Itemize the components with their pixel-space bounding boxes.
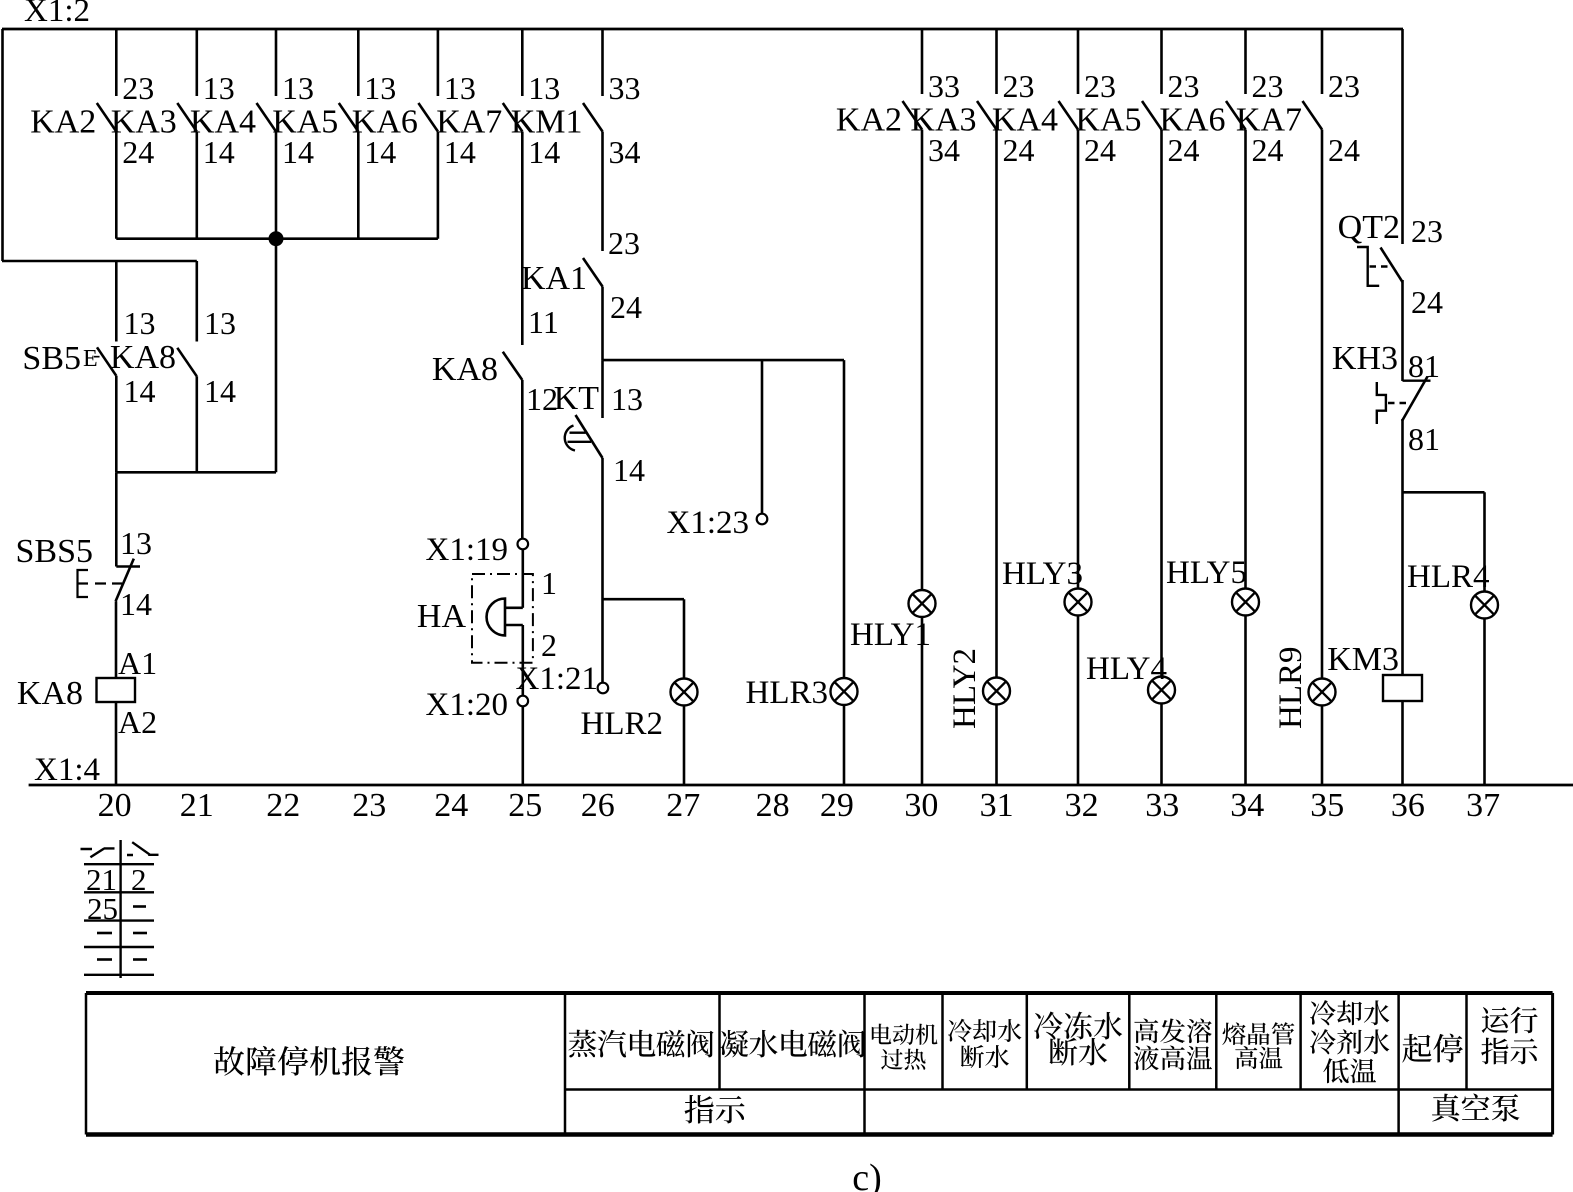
svg-text:X1:20: X1:20: [426, 687, 509, 723]
svg-text:23: 23: [1168, 68, 1200, 104]
svg-text:KA3: KA3: [910, 102, 976, 139]
svg-text:KM3: KM3: [1327, 641, 1399, 678]
svg-text:20: 20: [98, 787, 132, 824]
svg-text:13: 13: [120, 525, 152, 561]
svg-text:HLR2: HLR2: [581, 706, 664, 742]
svg-text:81: 81: [1408, 348, 1440, 384]
svg-text:X1:2: X1:2: [24, 0, 90, 29]
svg-text:24: 24: [1411, 284, 1443, 320]
svg-text:QT2: QT2: [1338, 209, 1400, 246]
svg-text:KA5: KA5: [1075, 102, 1141, 139]
svg-text:X1:21: X1:21: [516, 661, 599, 697]
svg-text:24: 24: [610, 289, 642, 325]
svg-text:34: 34: [1230, 787, 1264, 824]
svg-text:KA4: KA4: [992, 102, 1058, 139]
svg-text:13: 13: [444, 70, 476, 106]
svg-text:37: 37: [1466, 787, 1500, 824]
svg-text:11: 11: [528, 304, 559, 340]
svg-text:81: 81: [1408, 421, 1440, 457]
svg-text:KA7: KA7: [436, 104, 502, 141]
svg-text:13: 13: [282, 70, 314, 106]
svg-text:14: 14: [613, 452, 645, 488]
svg-text:23: 23: [1003, 68, 1035, 104]
svg-text:KA7: KA7: [1236, 102, 1302, 139]
svg-text:29: 29: [820, 787, 854, 824]
svg-text:26: 26: [581, 787, 615, 824]
svg-text:KA1: KA1: [521, 260, 587, 297]
svg-text:KA8: KA8: [17, 675, 83, 712]
svg-text:14: 14: [120, 586, 152, 622]
svg-text:23: 23: [122, 70, 154, 106]
svg-text:14: 14: [124, 373, 156, 409]
svg-text:KA3: KA3: [111, 104, 177, 141]
svg-text:36: 36: [1391, 787, 1425, 824]
svg-text:A1: A1: [118, 645, 157, 681]
svg-text:HLY5: HLY5: [1166, 555, 1247, 591]
svg-text:KA6: KA6: [352, 104, 418, 141]
svg-text:A2: A2: [118, 704, 157, 740]
svg-text:HLR4: HLR4: [1407, 559, 1490, 595]
svg-text:c): c): [852, 1157, 882, 1192]
svg-text:KT: KT: [554, 380, 600, 417]
svg-text:1: 1: [541, 565, 557, 601]
svg-text:HLY4: HLY4: [1086, 651, 1167, 687]
svg-text:KA8: KA8: [110, 339, 176, 376]
svg-text:X1:4: X1:4: [34, 752, 100, 788]
svg-text:24: 24: [1328, 132, 1360, 168]
svg-text:KM1: KM1: [511, 104, 583, 141]
svg-text:-: -: [93, 342, 100, 367]
svg-text:23: 23: [1252, 68, 1284, 104]
svg-text:13: 13: [611, 381, 643, 417]
svg-text:33: 33: [928, 68, 960, 104]
svg-text:13: 13: [204, 305, 236, 341]
svg-text:13: 13: [528, 70, 560, 106]
svg-text:25: 25: [87, 891, 118, 926]
svg-text:28: 28: [756, 787, 790, 824]
svg-text:13: 13: [364, 70, 396, 106]
svg-text:23: 23: [1084, 68, 1116, 104]
svg-text:HA: HA: [417, 598, 467, 635]
svg-text:32: 32: [1065, 787, 1099, 824]
svg-text:KA2: KA2: [836, 102, 902, 139]
svg-text:KA6: KA6: [1159, 102, 1225, 139]
svg-text:HLY1: HLY1: [850, 617, 931, 653]
svg-text:22: 22: [266, 787, 300, 824]
svg-text:SBS5: SBS5: [16, 533, 94, 570]
svg-text:KH3: KH3: [1332, 340, 1398, 377]
svg-text:KA4: KA4: [190, 104, 256, 141]
svg-text:HLR3: HLR3: [746, 675, 829, 711]
svg-text:13: 13: [203, 70, 235, 106]
svg-text:31: 31: [980, 787, 1014, 824]
svg-text:30: 30: [904, 787, 938, 824]
svg-text:14: 14: [204, 373, 236, 409]
svg-text:25: 25: [508, 787, 542, 824]
svg-text:KA5: KA5: [272, 104, 338, 141]
svg-text:23: 23: [1328, 68, 1360, 104]
svg-text:24: 24: [434, 787, 468, 824]
svg-text:21: 21: [180, 787, 214, 824]
svg-text:KA8: KA8: [432, 351, 498, 388]
svg-text:23: 23: [1411, 213, 1443, 249]
svg-text:13: 13: [124, 305, 156, 341]
svg-text:23: 23: [608, 225, 640, 261]
svg-text:X1:19: X1:19: [426, 532, 509, 568]
svg-text:HLY3: HLY3: [1002, 556, 1083, 592]
svg-text:SB5: SB5: [22, 340, 81, 377]
svg-text:33: 33: [1145, 787, 1179, 824]
svg-text:33: 33: [609, 70, 641, 106]
svg-text:23: 23: [352, 787, 386, 824]
svg-text:27: 27: [666, 787, 700, 824]
svg-text:HLY2: HLY2: [947, 648, 983, 729]
svg-text:2: 2: [131, 862, 147, 897]
svg-text:HLR9: HLR9: [1273, 647, 1309, 730]
svg-text:34: 34: [609, 134, 641, 170]
svg-text:2: 2: [541, 627, 557, 663]
svg-text:35: 35: [1310, 787, 1344, 824]
svg-text:X1:23: X1:23: [667, 505, 750, 541]
svg-text:KA2: KA2: [30, 104, 96, 141]
